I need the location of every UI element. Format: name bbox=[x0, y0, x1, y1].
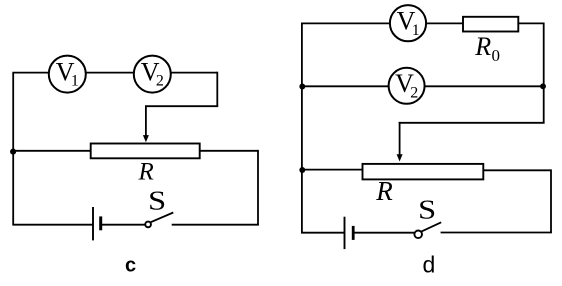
wire: left vertical (d) bbox=[301, 23, 303, 232]
caption c bbox=[125, 254, 136, 276]
wire: R row left segment (d) bbox=[302, 169, 363, 171]
switch S (c) bbox=[145, 213, 173, 228]
switch S (d) bbox=[414, 222, 441, 238]
wire: switch to bottom-right corner (d) bbox=[441, 232, 552, 234]
wire: right vertical lower (d) bbox=[550, 169, 552, 232]
value label R (d) bbox=[375, 176, 393, 206]
value label R (c) bbox=[138, 159, 154, 186]
wire: wiper vertical with arrowhead (c) bbox=[143, 105, 149, 142]
voltmeter V1 (d) bbox=[390, 5, 426, 41]
wire: V2 to top-right corner (c) bbox=[170, 72, 217, 74]
svg-text:1: 1 bbox=[71, 73, 79, 90]
svg-text:1: 1 bbox=[412, 22, 420, 39]
wire: switch to bottom-right corner (c) bbox=[172, 224, 259, 226]
rheostat R (d) body bbox=[363, 164, 484, 180]
wire: R row right segment (d) bbox=[483, 169, 551, 171]
wire: left vertical (c) bbox=[12, 73, 14, 225]
node: junction dot R row (d) bbox=[299, 167, 305, 173]
wire: right vertical upper (d) bbox=[543, 23, 545, 123]
svg-text:R: R bbox=[474, 32, 491, 61]
wire: bottom row left segment to battery (d) bbox=[301, 232, 345, 234]
wire: right vertical (c) bbox=[257, 150, 259, 225]
svg-text:S: S bbox=[148, 185, 166, 216]
wire: bottom row left segment to battery (c) bbox=[12, 224, 93, 226]
svg-text:2: 2 bbox=[156, 73, 164, 90]
caption d bbox=[423, 252, 436, 278]
label S (d) bbox=[418, 194, 436, 225]
wire: wiper vertical with arrowhead (d) bbox=[397, 122, 403, 162]
wire: R0 to top-right corner (d) bbox=[518, 22, 543, 24]
wire: mid row left segment to rheostat (c) bbox=[13, 150, 91, 152]
wire: top row left stub to V1 (c) bbox=[12, 72, 49, 74]
wire: top row left stub to V1 (d) bbox=[301, 22, 390, 24]
wire: wiper jog horizontal (c) bbox=[145, 105, 218, 107]
svg-text:d: d bbox=[423, 252, 436, 278]
svg-text:2: 2 bbox=[410, 84, 418, 101]
label S (c) bbox=[148, 185, 166, 216]
wire: rheostat to right vertical (c) bbox=[200, 150, 258, 152]
wire: wiper jog horizontal (d) bbox=[399, 122, 545, 124]
wire: right vertical down to wiper jog (c) bbox=[216, 72, 218, 107]
svg-text:R: R bbox=[138, 159, 154, 186]
svg-text:0: 0 bbox=[492, 46, 501, 65]
svg-text:c: c bbox=[125, 254, 136, 276]
value label R0 (d) bbox=[474, 32, 500, 65]
wire: V1 to R0 (d) bbox=[426, 22, 464, 24]
svg-text:R: R bbox=[375, 176, 393, 206]
voltmeter V2 (c) bbox=[134, 56, 171, 93]
voltmeter V1 (c) bbox=[49, 56, 86, 93]
svg-text:S: S bbox=[418, 194, 436, 225]
resistor R0 body (d) bbox=[463, 17, 518, 32]
node: junction dot right V2 row (d) bbox=[540, 83, 546, 89]
battery (c) bbox=[93, 207, 101, 240]
wire: between V1 and V2 (c) bbox=[85, 72, 134, 74]
wire: battery to switch (d) bbox=[355, 232, 415, 234]
node: junction dot left V2 row (d) bbox=[299, 84, 305, 90]
wire: V2 row left segment (d) bbox=[302, 85, 389, 87]
battery (d) bbox=[345, 217, 354, 249]
rheostat R (c) body bbox=[91, 144, 200, 159]
voltmeter V2 (d) bbox=[389, 68, 425, 104]
node: junction dot on left vertical (c) bbox=[10, 149, 16, 155]
wire: battery to switch (c) bbox=[102, 224, 145, 226]
wire: V2 row right segment (d) bbox=[425, 85, 544, 87]
